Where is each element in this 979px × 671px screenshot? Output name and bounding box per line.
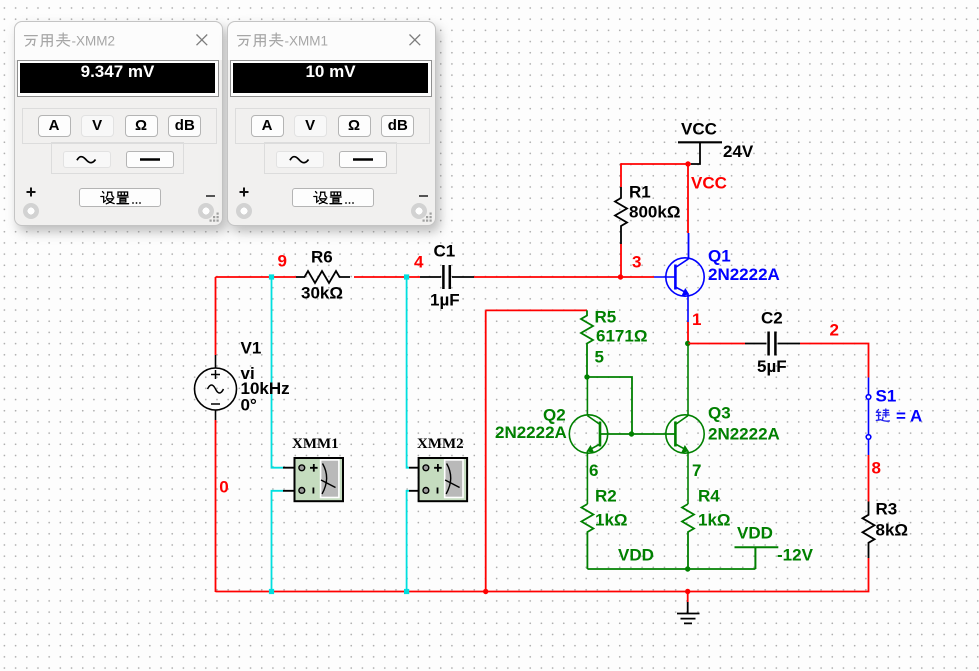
label node 0 <box>219 478 228 497</box>
svg-text:Q3: Q3 <box>708 404 731 423</box>
label 10kHz <box>241 379 290 398</box>
capacitor C1 <box>420 265 474 289</box>
source V1 <box>195 355 237 420</box>
svg-text:0°: 0° <box>241 396 257 415</box>
label node 6 <box>589 461 598 480</box>
label 5uF <box>757 357 787 376</box>
label Q3 <box>708 404 731 423</box>
wire C2 to S1 <box>800 344 869 378</box>
node 9 cyan dot <box>269 274 274 279</box>
node VDD rail junction dot <box>685 566 690 571</box>
wire node1 to C2 <box>688 343 745 345</box>
label 800kOhm <box>629 202 680 221</box>
label R1 <box>629 183 651 202</box>
wire VCC symbol lead <box>691 142 700 164</box>
svg-text:VDD: VDD <box>737 523 773 542</box>
label 6171Ohm <box>596 326 647 345</box>
node R5-feed junction dot <box>483 589 488 594</box>
svg-text:VCC: VCC <box>691 174 727 193</box>
transistor Q2 (mirrored) <box>569 377 607 504</box>
label R2 1kOhm <box>595 510 628 529</box>
label VDD symbol <box>737 523 773 542</box>
node VCC junction dot <box>685 161 690 166</box>
svg-text:S1: S1 <box>876 386 897 405</box>
svg-text:Q2: Q2 <box>543 406 566 425</box>
transistor Q3 <box>666 344 704 505</box>
wire S1 to R3 <box>868 455 870 502</box>
label Q1 <box>708 247 731 266</box>
label R3 <box>876 499 898 518</box>
svg-text:5µF: 5µF <box>757 357 787 376</box>
svg-text:8: 8 <box>872 459 881 478</box>
svg-text:800kΩ: 800kΩ <box>629 202 680 221</box>
label 0deg <box>241 396 257 415</box>
wire R6 to C1 <box>354 276 420 278</box>
multimeter window XMM1 <box>227 21 436 226</box>
node 3 junction dot <box>618 274 623 279</box>
svg-text:R6: R6 <box>311 248 333 267</box>
svg-text:1µF: 1µF <box>430 291 460 310</box>
svg-text:R5: R5 <box>595 308 617 327</box>
svg-text:2N2222A: 2N2222A <box>495 423 567 442</box>
wire R5 feed vertical <box>485 310 487 591</box>
instrument XMM1 icon <box>283 458 343 501</box>
wire cyan node9 to XMM1 plus <box>272 277 284 468</box>
label node 8 <box>872 459 881 478</box>
svg-text:-XMM1: -XMM1 <box>285 33 329 48</box>
svg-text:5: 5 <box>595 348 604 367</box>
label R6 <box>311 248 333 267</box>
svg-text:= A: = A <box>896 406 922 425</box>
label S1 <box>876 386 897 405</box>
svg-text:R3: R3 <box>876 499 898 518</box>
label 8kOhm <box>876 520 909 539</box>
label Q2 <box>543 406 566 425</box>
label XMM1 <box>292 436 339 452</box>
svg-text:24V: 24V <box>723 142 754 161</box>
wire VCC top horizontal <box>621 163 691 165</box>
svg-text:-XMM2: -XMM2 <box>72 33 116 48</box>
wire R1 bottom <box>620 244 622 277</box>
multimeter window XMM2 <box>14 21 223 226</box>
node cyan rail dot 1 <box>269 589 274 594</box>
svg-text:XMM2: XMM2 <box>417 436 464 452</box>
svg-text:4: 4 <box>414 252 424 271</box>
wire Q1 collector lead blue <box>688 233 690 259</box>
svg-text:R4: R4 <box>698 487 720 506</box>
label node 9 <box>278 252 287 271</box>
label node 7 <box>692 461 701 480</box>
label V1 <box>241 339 262 358</box>
label Q3 2N2222A <box>708 425 780 444</box>
wire cyan XMM1 minus to rail <box>272 491 284 592</box>
label R5 <box>595 308 617 327</box>
switch S1 <box>866 378 871 456</box>
node 4 cyan dot <box>404 274 409 279</box>
label Q2 2N2222A <box>495 423 567 442</box>
svg-text:2N2222A: 2N2222A <box>708 425 780 444</box>
svg-text:1: 1 <box>692 310 701 329</box>
svg-text:3: 3 <box>632 252 641 271</box>
svg-text:VCC: VCC <box>681 120 717 139</box>
svg-text:-12V: -12V <box>777 546 814 565</box>
node cyan rail dot 2 <box>404 589 409 594</box>
wire base rail <box>600 433 675 435</box>
svg-text:VDD: VDD <box>618 546 654 565</box>
label node 1 <box>692 310 701 329</box>
resistor R2 <box>581 504 593 569</box>
capacitor C2 <box>745 332 800 356</box>
svg-text:9: 9 <box>278 252 287 271</box>
label R4 1kOhm <box>698 510 731 529</box>
wire left vertical to V1 <box>215 277 217 355</box>
svg-text:XMM1: XMM1 <box>292 436 339 452</box>
label VCC symbol <box>681 120 717 139</box>
wire Q1 emitter red <box>687 322 689 344</box>
label 30kOhm <box>301 283 343 302</box>
label VDD net <box>618 546 654 565</box>
svg-text:R1: R1 <box>629 183 651 202</box>
wire VCC to Q1 collector red <box>687 164 689 233</box>
resistor R3 <box>863 502 875 559</box>
svg-text:C1: C1 <box>434 242 456 261</box>
svg-text:V1: V1 <box>241 339 262 358</box>
node 1 junction dot green <box>685 341 690 346</box>
ground <box>677 602 700 623</box>
wire ground stub red <box>687 592 689 603</box>
svg-text:6171Ω: 6171Ω <box>596 326 647 345</box>
svg-text:2: 2 <box>830 320 839 339</box>
label net VCC red <box>691 174 727 193</box>
label C2 <box>761 308 783 327</box>
svg-text:C2: C2 <box>761 308 783 327</box>
wire V1 bottom to rail <box>215 420 217 592</box>
label XMM2 <box>417 436 464 452</box>
wire cyan node4 to XMM2 plus <box>407 277 409 468</box>
label node 3 <box>632 252 641 271</box>
wire cyan XMM2 minus to rail <box>407 491 409 592</box>
resistor R4 <box>682 504 694 569</box>
label -12V <box>777 546 814 565</box>
label R2 <box>595 487 617 506</box>
node base rail junction dot <box>629 431 634 436</box>
wire node3 to Q1 base <box>474 276 654 278</box>
svg-text:8kΩ: 8kΩ <box>876 520 909 539</box>
wire node5 to base rail <box>587 377 632 434</box>
resistor R6 <box>296 271 350 283</box>
svg-text:6: 6 <box>589 461 598 480</box>
wire node9 horizontal <box>216 276 297 278</box>
node ground junction dot <box>685 589 690 594</box>
power symbol VCC bar <box>678 141 722 143</box>
power symbol VDD <box>735 547 779 569</box>
label 1uF <box>430 291 460 310</box>
svg-text:1kΩ: 1kΩ <box>595 510 628 529</box>
svg-text:7: 7 <box>692 461 701 480</box>
svg-text:R2: R2 <box>595 487 617 506</box>
svg-text:1kΩ: 1kΩ <box>698 510 731 529</box>
label vi <box>241 364 255 383</box>
label C1 <box>434 242 456 261</box>
wire R3 bottom to rail <box>216 558 869 592</box>
svg-text:30kΩ: 30kΩ <box>301 283 343 302</box>
transistor Q1 <box>654 258 704 322</box>
svg-text:Q1: Q1 <box>708 247 731 266</box>
wire R1 top <box>620 163 622 187</box>
svg-text:0: 0 <box>219 478 228 497</box>
label S1 key = A (CJK jian drawn as path) <box>876 409 889 421</box>
wire VDD rail green <box>587 568 755 570</box>
label Q1 2N2222A <box>708 265 780 284</box>
svg-text:2N2222A: 2N2222A <box>708 265 780 284</box>
wire R5 feed horizontal <box>486 309 587 311</box>
resistor R1 <box>615 187 627 244</box>
label R4 <box>698 487 720 506</box>
label node 5 <box>595 348 604 367</box>
node 5 junction dot <box>584 374 589 379</box>
instrument XMM2 icon <box>409 458 467 501</box>
label node 2 <box>830 320 839 339</box>
label 24V <box>723 142 754 161</box>
label node 4 <box>414 252 424 271</box>
resistor R5 <box>581 310 593 377</box>
